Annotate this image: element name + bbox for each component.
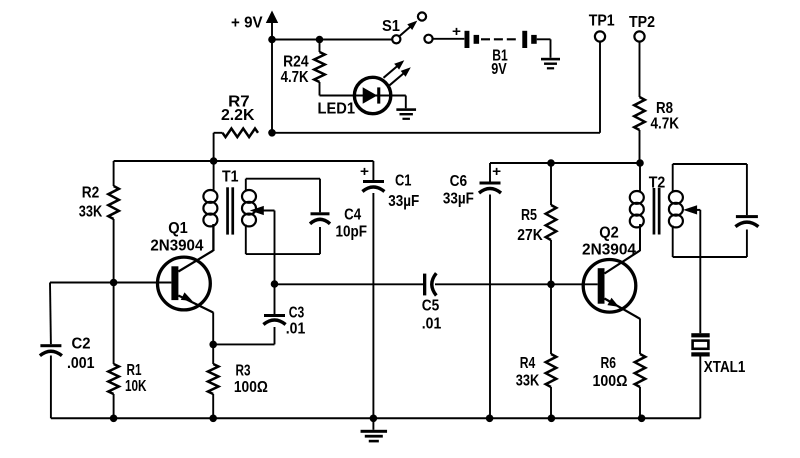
resistor R2 (79, 161, 119, 283)
capacitor C5 (422, 273, 442, 332)
transformer T1 secondary (242, 179, 256, 254)
transistor Q1 (150, 220, 213, 312)
ground LED (396, 108, 416, 120)
svg-text:C3: C3 (289, 305, 305, 322)
resistor R24 (281, 40, 325, 96)
ground battery (541, 58, 560, 70)
node junction at +9V arrow (268, 36, 276, 44)
svg-text:R1: R1 (127, 362, 142, 379)
node junction Q1 base (110, 279, 118, 287)
wire battery to ground (537, 39, 551, 58)
svg-text:TP2: TP2 (629, 14, 655, 31)
wire C2 to rail (50, 356, 52, 419)
node junction R7/TP1 wire (268, 129, 276, 137)
+9V supply arrow (231, 11, 278, 41)
node junction Q1 emitter/R3/C3 (209, 341, 217, 349)
node junction T1 top (210, 157, 218, 165)
node junction rail C6 (486, 415, 494, 423)
svg-text:Q2: Q2 (599, 224, 619, 241)
svg-text:+: + (360, 163, 369, 179)
wire XTAL1 to rail (699, 357, 701, 419)
wire ground stub (372, 418, 374, 430)
wire middle coupling (275, 283, 424, 285)
wire +9V to R7 junction (271, 40, 273, 133)
svg-text:10pF: 10pF (336, 224, 368, 241)
svg-text:33µF: 33µF (388, 193, 419, 210)
svg-text:+: + (452, 23, 461, 39)
capacitor C4 (310, 207, 367, 241)
svg-text:C4: C4 (344, 207, 361, 224)
transformer T2 secondary (669, 164, 683, 257)
svg-text:100Ω: 100Ω (593, 373, 628, 390)
svg-text:C2: C2 (72, 336, 91, 353)
wire C1 to rail (372, 193, 374, 418)
transistor Q2 (582, 224, 640, 318)
capacitor C3 (213, 284, 305, 344)
svg-text:.01: .01 (286, 321, 306, 338)
LED light arrows (384, 60, 411, 85)
svg-text:R6: R6 (601, 355, 617, 372)
battery B1 (452, 23, 537, 78)
transformer T1 core (226, 187, 234, 234)
resistor R1 (108, 283, 147, 419)
node junction rail ground (370, 415, 378, 423)
node junction rail R1 (110, 415, 118, 423)
svg-text:+: + (492, 163, 501, 179)
switch S1 (382, 12, 433, 43)
svg-text:R3: R3 (236, 363, 251, 380)
T1 tap arrow (250, 206, 275, 215)
node junction rail R4 (548, 415, 556, 423)
capacitor C2 (40, 336, 95, 373)
svg-text:.01: .01 (422, 316, 442, 333)
svg-text:T1: T1 (222, 168, 239, 185)
wire S1 to battery (433, 38, 465, 40)
wire TP2 to R8 (639, 42, 641, 97)
svg-text:S1: S1 (382, 18, 400, 35)
svg-text:+ 9V: + 9V (231, 15, 263, 32)
node junction T2 top (636, 159, 644, 167)
svg-text:27K: 27K (517, 227, 543, 244)
svg-text:33µF: 33µF (443, 191, 474, 208)
svg-text:4.7K: 4.7K (281, 69, 309, 86)
svg-text:R24: R24 (283, 54, 309, 71)
wire R24 to LED1 (320, 95, 355, 97)
test point TP2 (629, 14, 655, 42)
node junction R5 top (547, 159, 555, 167)
transformer T2 label (649, 175, 666, 192)
svg-text:4.7K: 4.7K (651, 116, 680, 133)
wire Q2 collector to T2 (639, 224, 641, 251)
svg-text:LED1: LED1 (318, 101, 356, 118)
node junction R24 top (316, 36, 324, 44)
transformer T1 label (222, 168, 239, 185)
svg-text:10K: 10K (125, 378, 147, 395)
wire right supply rail (490, 162, 640, 164)
transformer T2 core (653, 188, 661, 235)
wire Q1 emitter drop (212, 312, 214, 344)
svg-text:C6: C6 (450, 173, 468, 190)
resistor R6 (593, 354, 646, 418)
svg-text:C5: C5 (422, 298, 440, 315)
transformer T1 primary (203, 161, 217, 251)
wire R8 to junction (639, 130, 641, 163)
ground main (361, 430, 388, 443)
wire tap to junction (274, 211, 276, 285)
wire TP1 drop (272, 42, 600, 133)
wire Q1 base (50, 282, 171, 284)
resistor R3 (208, 344, 268, 418)
wire T2 tank loop (673, 164, 747, 257)
wire LED to ground (405, 96, 407, 109)
wire C5 to Q2 base (435, 283, 598, 285)
node junction tap/C5/C3 (271, 280, 279, 288)
wire +9V rail (272, 39, 392, 41)
svg-text:T2: T2 (649, 175, 666, 192)
wire T1 tank loop (246, 179, 320, 254)
resistor R8 (634, 97, 679, 133)
node junction R4/R5/base (547, 281, 555, 289)
svg-text:2.2K: 2.2K (221, 107, 255, 124)
svg-text:TP1: TP1 (589, 13, 615, 30)
svg-text:33K: 33K (79, 204, 103, 221)
svg-text:9V: 9V (491, 61, 507, 78)
svg-text:Q1: Q1 (168, 220, 188, 237)
wire C6 to rail (489, 195, 491, 419)
wire bottom rail (51, 417, 700, 419)
svg-text:R5: R5 (521, 207, 537, 224)
capacitor C6 (443, 163, 501, 208)
svg-text:R2: R2 (82, 185, 100, 202)
svg-text:.001: .001 (67, 355, 95, 372)
svg-text:2N3904: 2N3904 (582, 242, 636, 259)
wire left supply rail (114, 160, 374, 162)
svg-text:XTAL1: XTAL1 (704, 359, 746, 376)
test point TP1 (589, 13, 615, 42)
capacitor T2 tank (735, 215, 758, 227)
wire C2 branch top (49, 283, 52, 345)
node junction rail R6 (638, 415, 646, 423)
resistor R7 (214, 94, 258, 138)
svg-text:100Ω: 100Ω (234, 379, 268, 396)
svg-text:R4: R4 (520, 355, 536, 372)
capacitor C1 (360, 161, 419, 210)
wire Q2 emitter to R6 (639, 319, 641, 355)
svg-text:C1: C1 (395, 173, 412, 190)
svg-text:33K: 33K (516, 373, 540, 390)
wire R7 to left rail (213, 133, 215, 161)
wire Q1 collector to T1 (212, 224, 214, 251)
LED LED1 (318, 77, 406, 117)
transformer T2 primary (630, 163, 644, 251)
svg-text:R8: R8 (656, 100, 673, 117)
wire tap to XTAL1 (699, 210, 701, 333)
T2 tap arrow (683, 205, 700, 214)
svg-text:2N3904: 2N3904 (150, 238, 203, 255)
resistor R5 (517, 163, 556, 284)
resistor R4 (516, 284, 557, 418)
node junction rail R3 (209, 415, 217, 423)
crystal XTAL1 (691, 333, 745, 376)
